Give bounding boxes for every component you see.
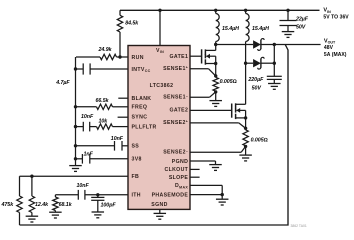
node L2 junction bbox=[244, 9, 247, 12]
capacitor C6 100pF bbox=[91, 195, 116, 212]
node Q1 drain junction bbox=[214, 43, 217, 46]
capacitor C8 22uF bbox=[280, 10, 309, 31]
svg-text:50V: 50V bbox=[252, 85, 262, 91]
ground bus ground bbox=[69, 159, 82, 172]
wire VIN pin bbox=[159, 10, 161, 45]
wire SENSE1- bbox=[190, 92, 216, 97]
svg-text:CLKOUT: CLKOUT bbox=[164, 167, 188, 173]
resistor R7 68.1k bbox=[53, 195, 73, 212]
node RS2 bottom junction bbox=[244, 145, 247, 148]
node C8 junction bbox=[286, 9, 289, 12]
svg-text:VOUT: VOUT bbox=[324, 38, 336, 44]
wire VIN rail bbox=[120, 9, 320, 11]
node DMAX junction bbox=[221, 193, 224, 196]
diode D2 bbox=[253, 57, 264, 69]
ground PGND bbox=[190, 161, 222, 170]
ground R7 ground bbox=[49, 212, 62, 218]
svg-text:0.005Ω: 0.005Ω bbox=[220, 79, 237, 85]
ground SGND ground bbox=[154, 209, 167, 219]
svg-text:ITH: ITH bbox=[132, 193, 141, 199]
node INTVCC junction bbox=[74, 67, 77, 70]
wire VOUT bbox=[274, 44, 320, 46]
resistor R2 24.9k bbox=[76, 47, 117, 60]
node Q1 source junction bbox=[214, 62, 217, 76]
capacitor C1 4.7uF bbox=[55, 63, 128, 86]
svg-text:FREQ: FREQ bbox=[132, 105, 148, 111]
capacitor C3 10nF bbox=[76, 136, 129, 151]
ground RS1 ground bbox=[209, 92, 222, 107]
capacitor C7 220uF bbox=[247, 63, 281, 91]
wire FB line bbox=[20, 175, 129, 177]
wire ground bus bbox=[75, 57, 77, 159]
wire SYNC stub bbox=[118, 116, 128, 118]
wire VOUT feedback drop bbox=[20, 45, 289, 226]
wire SENSE1+ bbox=[190, 69, 216, 76]
node RS1 bottom junction bbox=[214, 90, 217, 93]
wire RUN node bbox=[117, 56, 129, 58]
ground C6 ground bbox=[92, 212, 105, 218]
wire D1 cathode bbox=[261, 44, 274, 46]
inductor L2 15.4uH bbox=[246, 10, 270, 63]
node RUN junction bbox=[118, 55, 121, 58]
svg-text:SGND: SGND bbox=[151, 202, 167, 208]
svg-text:PHASEMODE: PHASEMODE bbox=[152, 192, 189, 198]
svg-text:LTC3862: LTC3862 bbox=[150, 83, 174, 89]
wire SENSE2+ bbox=[190, 123, 246, 128]
svg-text:66.5k: 66.5k bbox=[96, 98, 110, 104]
node 3V8 junction bbox=[74, 157, 77, 160]
wire SENSE2- bbox=[190, 146, 246, 152]
resistor R3 66.5k bbox=[76, 98, 129, 110]
resistor R8 0.005 ohm bbox=[213, 77, 237, 91]
svg-text:RUN: RUN bbox=[132, 55, 144, 61]
svg-text:10nF: 10nF bbox=[77, 183, 90, 189]
svg-text:FB: FB bbox=[132, 174, 140, 180]
svg-text:10k: 10k bbox=[99, 119, 109, 125]
node VOUT label bbox=[324, 38, 347, 57]
svg-text:PGND: PGND bbox=[172, 159, 188, 165]
node L1 junction bbox=[214, 9, 217, 12]
svg-text:SLOPE: SLOPE bbox=[169, 175, 189, 181]
resistor R5 475k bbox=[1, 176, 23, 225]
svg-text:1nF: 1nF bbox=[84, 152, 94, 158]
svg-text:15.4µH: 15.4µH bbox=[252, 26, 269, 32]
wire D2 cathode bbox=[261, 62, 274, 64]
svg-text:SYNC: SYNC bbox=[132, 114, 148, 120]
svg-text:PLLFLTR: PLLFLTR bbox=[132, 124, 157, 130]
capacitor C5 10nF bbox=[55, 183, 89, 200]
wire DMAX bbox=[190, 185, 222, 194]
ground RS2 ground bbox=[239, 146, 252, 161]
svg-text:SS: SS bbox=[132, 144, 140, 150]
wire D2 anode bbox=[246, 62, 254, 64]
node RS2 top junction bbox=[244, 127, 247, 130]
transistor Q2 bbox=[232, 63, 246, 119]
node Q2 source junction bbox=[244, 116, 247, 128]
svg-text:3862 TA01: 3862 TA01 bbox=[291, 224, 307, 228]
transistor Q1 bbox=[202, 45, 216, 65]
svg-text:SENSE2+: SENSE2+ bbox=[163, 120, 188, 127]
diode D1 bbox=[253, 39, 264, 51]
resistor R4 10k bbox=[90, 119, 128, 130]
inductor L1 15.4uH bbox=[216, 10, 239, 44]
resistor R1 84.5k bbox=[117, 10, 139, 57]
svg-text:5V TO 36V: 5V TO 36V bbox=[323, 15, 349, 21]
svg-text:SENSE2–: SENSE2– bbox=[163, 149, 188, 156]
svg-text:SENSE1+: SENSE1+ bbox=[163, 65, 188, 72]
svg-text:24.9k: 24.9k bbox=[98, 47, 113, 53]
svg-text:475k: 475k bbox=[1, 202, 15, 208]
svg-text:48V: 48V bbox=[324, 45, 334, 51]
node Q2 drain junction bbox=[244, 62, 247, 65]
svg-text:15.4µH: 15.4µH bbox=[222, 26, 239, 32]
svg-text:50V: 50V bbox=[296, 25, 306, 31]
wire VOUT column bbox=[273, 45, 275, 64]
svg-text:68.1k: 68.1k bbox=[59, 202, 73, 208]
node VIN junction bbox=[158, 9, 161, 12]
svg-text:SENSE1–: SENSE1– bbox=[163, 94, 188, 101]
node ITH junction bbox=[96, 193, 99, 196]
svg-text:5A (MAX): 5A (MAX) bbox=[324, 52, 347, 58]
svg-text:100pF: 100pF bbox=[101, 202, 117, 208]
resistor R9 0.005 ohm bbox=[243, 130, 268, 146]
node figure label bbox=[291, 224, 307, 228]
svg-text:0.005Ω: 0.005Ω bbox=[251, 137, 268, 143]
ground DMAX ground bbox=[216, 195, 229, 205]
wire SLOPE stub bbox=[190, 176, 200, 178]
svg-text:GATE1: GATE1 bbox=[170, 54, 189, 60]
wire ITH line bbox=[85, 194, 128, 196]
svg-text:10nF: 10nF bbox=[111, 136, 124, 142]
node VOUT junction bbox=[273, 43, 276, 46]
node FREQ junction bbox=[74, 105, 77, 108]
svg-text:GATE2: GATE2 bbox=[170, 108, 189, 114]
capacitor C2 10nF bbox=[76, 114, 94, 131]
svg-text:VIN: VIN bbox=[323, 8, 331, 14]
node SS junction bbox=[74, 144, 77, 147]
svg-text:BLANK: BLANK bbox=[132, 96, 152, 102]
op-amp U1 LTC3862 bbox=[128, 46, 190, 210]
node PLLFLTR junction bbox=[74, 125, 77, 128]
svg-text:220µF: 220µF bbox=[247, 77, 264, 83]
svg-text:3V8: 3V8 bbox=[132, 157, 142, 163]
wire PHASEMODE bbox=[190, 194, 222, 196]
capacitor C4 1nF bbox=[76, 152, 129, 164]
node D2 junction bbox=[273, 62, 276, 65]
ground C8 ground bbox=[282, 32, 295, 38]
node VIN label bbox=[323, 8, 349, 21]
wire CLKOUT stub bbox=[190, 168, 200, 170]
svg-text:4.7µF: 4.7µF bbox=[55, 80, 70, 86]
ground R6 ground bbox=[26, 216, 39, 222]
wire BLANK stub bbox=[118, 97, 128, 99]
wire GATE2 bbox=[190, 109, 232, 111]
resistor R6 12.4k bbox=[29, 176, 49, 216]
wire D1 anode bbox=[216, 44, 253, 46]
node RS1 top junction bbox=[214, 74, 217, 77]
ground C7 ground bbox=[268, 84, 281, 90]
wire GATE1 bbox=[190, 55, 202, 57]
svg-text:22µF: 22µF bbox=[295, 16, 309, 22]
svg-text:12.4k: 12.4k bbox=[35, 202, 49, 208]
svg-text:10nF: 10nF bbox=[81, 114, 94, 120]
svg-text:84.5k: 84.5k bbox=[125, 21, 139, 27]
node FB junction bbox=[30, 175, 33, 178]
